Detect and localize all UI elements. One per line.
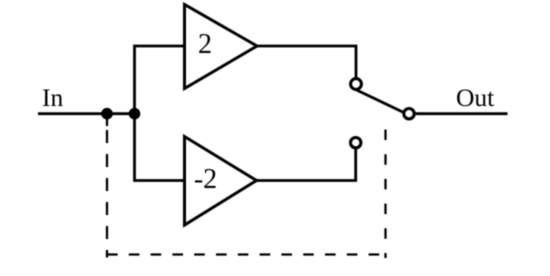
dashed control line right vertical to switch: [384, 130, 386, 259]
wire amplifier A2 output to switch bottom throw: [257, 143, 356, 181]
switch SW1 top throw terminal: [351, 79, 362, 90]
switch SW1 lever: [356, 90, 410, 116]
switch SW1 common terminal: [404, 109, 414, 119]
dashed control line left vertical: [106, 130, 108, 258]
dashed control line stub below left junction: [106, 119, 108, 127]
wire lower branch: [135, 114, 187, 181]
junction node dot left: [101, 108, 113, 120]
svg-text:-2: -2: [194, 164, 217, 195]
amplifier A2 gain -2: [185, 137, 257, 226]
wire amplifier A1 output to switch top throw: [257, 46, 356, 84]
wire upper branch: [135, 46, 185, 114]
svg-text:Out: Out: [456, 83, 494, 112]
svg-text:2: 2: [198, 29, 212, 60]
junction node dot right: [129, 108, 141, 120]
dashed control line bottom horizontal: [107, 253, 386, 255]
svg-text:In: In: [42, 83, 63, 112]
switch SW1 bottom throw terminal: [351, 138, 361, 148]
wire output horizontal: [409, 112, 508, 115]
wire input horizontal: [38, 112, 136, 115]
amplifier A1 gain 2: [185, 5, 258, 89]
